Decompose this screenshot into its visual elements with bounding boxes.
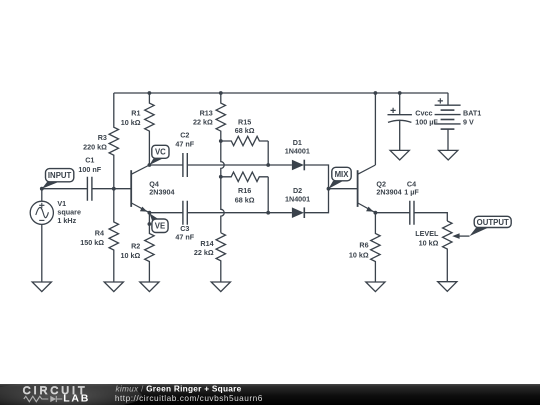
ground for Cvcc [390,150,409,160]
wire R15 right drop [267,141,269,165]
svg-text:VC: VC [155,148,166,157]
ground for R6 [366,282,385,292]
ground for LEVEL [438,282,457,292]
wire R13 bottom to R16 left with hop over collector wire [221,141,224,177]
svg-text:10 kΩ: 10 kΩ [121,251,141,260]
svg-text:220 kΩ: 220 kΩ [83,142,107,151]
node VE attach [148,222,152,226]
svg-text:VE: VE [155,222,165,231]
node top rail / Q2 collector [374,91,378,95]
svg-text:Cvcc: Cvcc [415,108,432,117]
transistor Q2 2N3904 [358,165,376,213]
svg-text:INPUT: INPUT [48,171,72,180]
svg-text:100 µF: 100 µF [415,118,438,127]
svg-text:http://circuitlab.com/cuvbsh5u: http://circuitlab.com/cuvbsh5uaurn6 [115,393,263,403]
flag OUTPUT [470,216,512,236]
flag INPUT [42,169,74,189]
node R3 R4 base wire [112,187,116,191]
svg-text:150 kΩ: 150 kΩ [80,238,104,247]
node R13 R15 [219,139,223,143]
wire R16 left down to R14 with hop over emitter wire [221,177,224,233]
voltage source V1 square 1kHz [30,189,53,282]
ground for R4 [104,282,123,292]
svg-text:LEVEL: LEVEL [415,229,439,238]
resistor R15 68k horizontal [221,136,268,145]
ground for BAT1 [439,150,458,160]
capacitor Cvcc 100uF polarized [388,93,412,150]
wire top rail [114,92,448,94]
diode D2 1N4001 [292,207,304,218]
resistor R6 10k vertical [371,213,380,282]
node R15 drop on collector wire [266,163,270,167]
node INPUT / V1 [40,187,44,191]
battery BAT1 9V [435,93,461,150]
resistor R14 22k vertical [216,233,225,282]
flag VC [149,145,169,165]
svg-text:2N3904: 2N3904 [149,188,174,197]
resistor R13 22k vertical [216,93,225,141]
svg-text:R4: R4 [95,228,104,237]
svg-text:R16: R16 [238,186,251,195]
node top rail / R13 [219,91,223,95]
svg-text:LAB: LAB [63,392,90,404]
svg-text:68 kΩ: 68 kΩ [235,126,255,135]
resistor R16 68k horizontal [221,172,268,181]
node MIX [327,187,331,191]
svg-text:R14: R14 [200,239,213,248]
capacitor C4 1uF [410,201,414,225]
resistor R3 220k vertical [109,93,118,189]
node R16 drop on emitter wire [266,211,270,215]
svg-text:R3: R3 [98,133,107,142]
svg-text:9 V: 9 V [463,118,474,127]
potentiometer wiper arrow [452,233,459,239]
wire MIX node to Q2 base [329,188,358,190]
wire C4 to LEVEL pot [414,213,447,221]
svg-text:1N4001: 1N4001 [285,195,310,204]
svg-text:1 µF: 1 µF [404,188,419,197]
svg-text:68 kΩ: 68 kΩ [235,195,255,204]
transistor Q4 emitter arrow [140,207,147,212]
svg-text:1N4001: 1N4001 [285,147,310,156]
wire Q2 emitter node to C4 [375,212,409,214]
node Q2 emitter [374,211,378,215]
svg-text:10 kΩ: 10 kΩ [121,118,141,127]
svg-text:47 nF: 47 nF [175,139,194,148]
wire C1 to Q4 base (junction at R3/R4) [92,188,131,190]
svg-text:OUTPUT: OUTPUT [477,218,509,227]
capacitor C2 47nF [183,153,187,177]
resistor R1 10k vertical [145,93,154,165]
transistor Q4 2N3904 [131,165,149,213]
svg-text:R2: R2 [131,242,140,251]
wire D2 to MIX corner [304,189,328,213]
ground for R2 [140,282,159,292]
logo resistor-diode squiggle [24,396,63,402]
wire Q2 collector to top rail [374,93,376,165]
ground for R14 [211,282,230,292]
svg-text:1 kHz: 1 kHz [57,216,76,225]
svg-text:R6: R6 [359,241,368,250]
svg-text:kimux / Green Ringer + Square: kimux / Green Ringer + Square [116,383,242,393]
svg-text:22 kΩ: 22 kΩ [193,118,213,127]
flag MIX [329,167,352,188]
node R16 left [219,175,223,179]
node VC collector [148,163,152,167]
wire C3 to D2 (through R16 drop junction) [188,212,292,214]
ground for V1 [32,282,51,292]
svg-text:22 kΩ: 22 kΩ [194,248,214,257]
wire C2 to D1 (through R15 drop junction) [188,164,292,166]
capacitor C1 100nF [87,177,92,201]
svg-text:47 nF: 47 nF [175,232,194,241]
svg-text:R13: R13 [200,108,213,117]
svg-text:C2: C2 [180,131,189,140]
svg-text:R1: R1 [131,109,140,118]
svg-text:MIX: MIX [335,170,350,179]
wire Q4 emitter node to C3 [149,212,182,214]
svg-text:2N3904: 2N3904 [376,188,401,197]
svg-text:C1: C1 [85,155,94,164]
svg-text:BAT1: BAT1 [463,108,481,117]
node top rail / R1 [148,91,152,95]
svg-text:100 nF: 100 nF [78,165,101,174]
potentiometer LEVEL 10k [443,221,452,282]
capacitor C3 47nF [183,201,187,225]
diode D1 1N4001 [292,160,304,171]
wire D1 to MIX corner [304,165,328,189]
wire wiper to OUTPUT [459,235,470,237]
svg-text:10 kΩ: 10 kΩ [419,239,439,248]
node Q4 emitter [148,211,152,215]
wire base-left from INPUT node to C1 [42,188,87,190]
resistor R4 150k vertical [109,189,118,282]
svg-text:R15: R15 [238,117,251,126]
svg-text:D2: D2 [293,186,302,195]
svg-text:10 kΩ: 10 kΩ [349,250,369,259]
resistor R2 10k vertical [145,213,154,282]
flag VE [149,213,168,232]
wire R16 right drop [267,177,269,213]
wire VC node to C2 [149,164,182,166]
transistor Q2 emitter arrow [366,207,373,212]
node top rail / Cvcc [398,91,402,95]
